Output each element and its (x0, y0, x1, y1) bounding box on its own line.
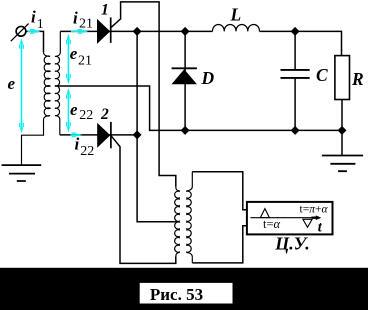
diode D triangle (172, 69, 197, 84)
arrowhead i22 barbs (72, 133, 76, 137)
wire: right winding bottom to control unit (192, 226, 247, 263)
svg-text:i: i (73, 9, 78, 28)
arrow e22 shaft (67, 90, 69, 130)
arrowhead i21 barbs (78, 30, 82, 34)
caption box (140, 283, 233, 304)
cyan arrows (22, 31, 84, 134)
svg-text:i: i (75, 135, 80, 154)
wire: source to primary top (26, 31, 44, 52)
arrow i21 shaft (71, 30, 84, 32)
inductor L (213, 25, 260, 32)
arrow i22 shaft (71, 134, 78, 136)
control unit pulse at t=alpha (260, 209, 269, 218)
junction bottom rail at capacitor (291, 126, 300, 135)
transformer T1 primary winding (22, 52, 51, 165)
arrow i1 shaft (28, 30, 37, 32)
thyristor 1 (97, 19, 110, 44)
arrowhead i21 (82, 30, 88, 33)
svg-text:t=α: t=α (263, 217, 281, 231)
svg-text:t=π+α: t=π+α (300, 204, 329, 216)
junction top rail at capacitor (291, 27, 300, 36)
wire: cathode tie line to pulse transformer center tap (137, 31, 179, 221)
wire: top rail left segment (60, 30, 212, 32)
svg-text:21: 21 (79, 17, 93, 32)
arrowhead e bottom barbs (20, 123, 24, 127)
arrowhead e21 bottom barbs (67, 74, 71, 78)
arrowhead e top barbs (20, 45, 24, 49)
svg-text:L: L (230, 4, 242, 24)
source terminal circle (16, 26, 26, 36)
arrowhead i1 (35, 30, 41, 33)
thyristor 2 cathode bar (110, 122, 112, 148)
arrowhead e22 bottom barbs (67, 122, 71, 126)
thyristor 1 cathode bar (110, 17, 112, 42)
wire: gate 2 down to pulse transformer bottom (111, 136, 176, 264)
wire: top rail right segment to R (260, 31, 342, 55)
wire: rail to right ground (341, 130, 343, 155)
wire: secondary bottom to thyristor 2 and junction (60, 134, 137, 136)
ground (right) (322, 156, 363, 172)
bottom black bar (0, 268, 368, 310)
junction top rail at diode (181, 27, 190, 36)
arrow e shaft (21, 41, 23, 132)
svg-text:e: e (70, 44, 78, 63)
arrowhead e22 top (67, 88, 70, 94)
wire: R bottom to rail (341, 100, 343, 131)
svg-text:2: 2 (100, 106, 109, 123)
wire: right winding top to control unit (192, 172, 247, 210)
svg-text:Рис. 53: Рис. 53 (150, 285, 203, 304)
arrowhead e top (20, 38, 23, 44)
svg-text:i: i (31, 8, 36, 27)
junction bottom rail at diode (181, 126, 190, 135)
svg-text:R: R (351, 69, 364, 89)
wire: capacitor branch verticals (294, 31, 296, 130)
svg-text:22: 22 (80, 144, 94, 159)
svg-text:21: 21 (78, 54, 92, 69)
arrowhead e22 top barbs (67, 94, 71, 98)
junction bottom rail at resistor (338, 126, 347, 135)
control unit time axis (250, 217, 313, 219)
arrowhead e21 top barbs (67, 40, 71, 44)
thyristor 2 (97, 123, 110, 148)
diode D cathode bar (172, 67, 197, 69)
arrowhead e bottom (20, 127, 23, 133)
capacitor C plates (281, 70, 310, 78)
control unit pulse at t=pi+alpha (303, 219, 312, 227)
arrowhead e22 bottom (67, 127, 70, 133)
junction top rail at cathode tie (133, 27, 142, 36)
junction thyristor 2 cathode (133, 130, 142, 139)
source terminal slash (11, 24, 29, 42)
svg-text:e: e (8, 74, 16, 93)
wire: gate 1 to pulse transformer left winding top (111, 2, 176, 187)
wire: center tap to bottom rail (55, 86, 342, 130)
transformer T1 secondary winding (55, 31, 60, 134)
arrowhead e21 bottom (67, 78, 70, 84)
wire: diode branch vertical (184, 31, 186, 130)
arrowhead i1 barbs (30, 30, 34, 34)
pulse transformer right winding (187, 172, 193, 263)
resistor R (335, 56, 350, 100)
svg-text:D: D (201, 68, 215, 88)
control unit box (247, 202, 333, 235)
svg-text:1: 1 (37, 17, 44, 32)
pulse transformer left winding (175, 187, 180, 257)
svg-text:Ц.У.: Ц.У. (274, 234, 309, 254)
arrowhead i22 (76, 133, 82, 136)
svg-text:C: C (316, 65, 328, 85)
svg-text:22: 22 (79, 108, 93, 123)
ground (left) (2, 165, 42, 181)
arrow e21 shaft (67, 36, 69, 83)
svg-text:e: e (70, 100, 78, 119)
arrowhead e21 top (67, 34, 70, 40)
svg-text:1: 1 (101, 1, 109, 18)
